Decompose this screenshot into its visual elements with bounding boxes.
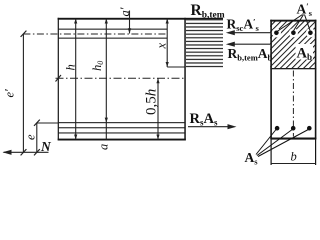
svg-text:a: a <box>97 144 111 150</box>
svg-text:e: e <box>24 134 38 140</box>
svg-text:N: N <box>40 139 52 154</box>
svg-text:e′: e′ <box>3 89 17 98</box>
svg-text:0,5h: 0,5h <box>144 89 160 115</box>
svg-text:h: h <box>64 64 78 70</box>
svg-text:a′: a′ <box>118 7 132 16</box>
svg-text:RsAs: RsAs <box>190 111 218 127</box>
svg-text:b: b <box>291 150 297 164</box>
svg-text:RscA′s: RscA′s <box>227 17 260 33</box>
svg-text:x: x <box>155 43 169 50</box>
